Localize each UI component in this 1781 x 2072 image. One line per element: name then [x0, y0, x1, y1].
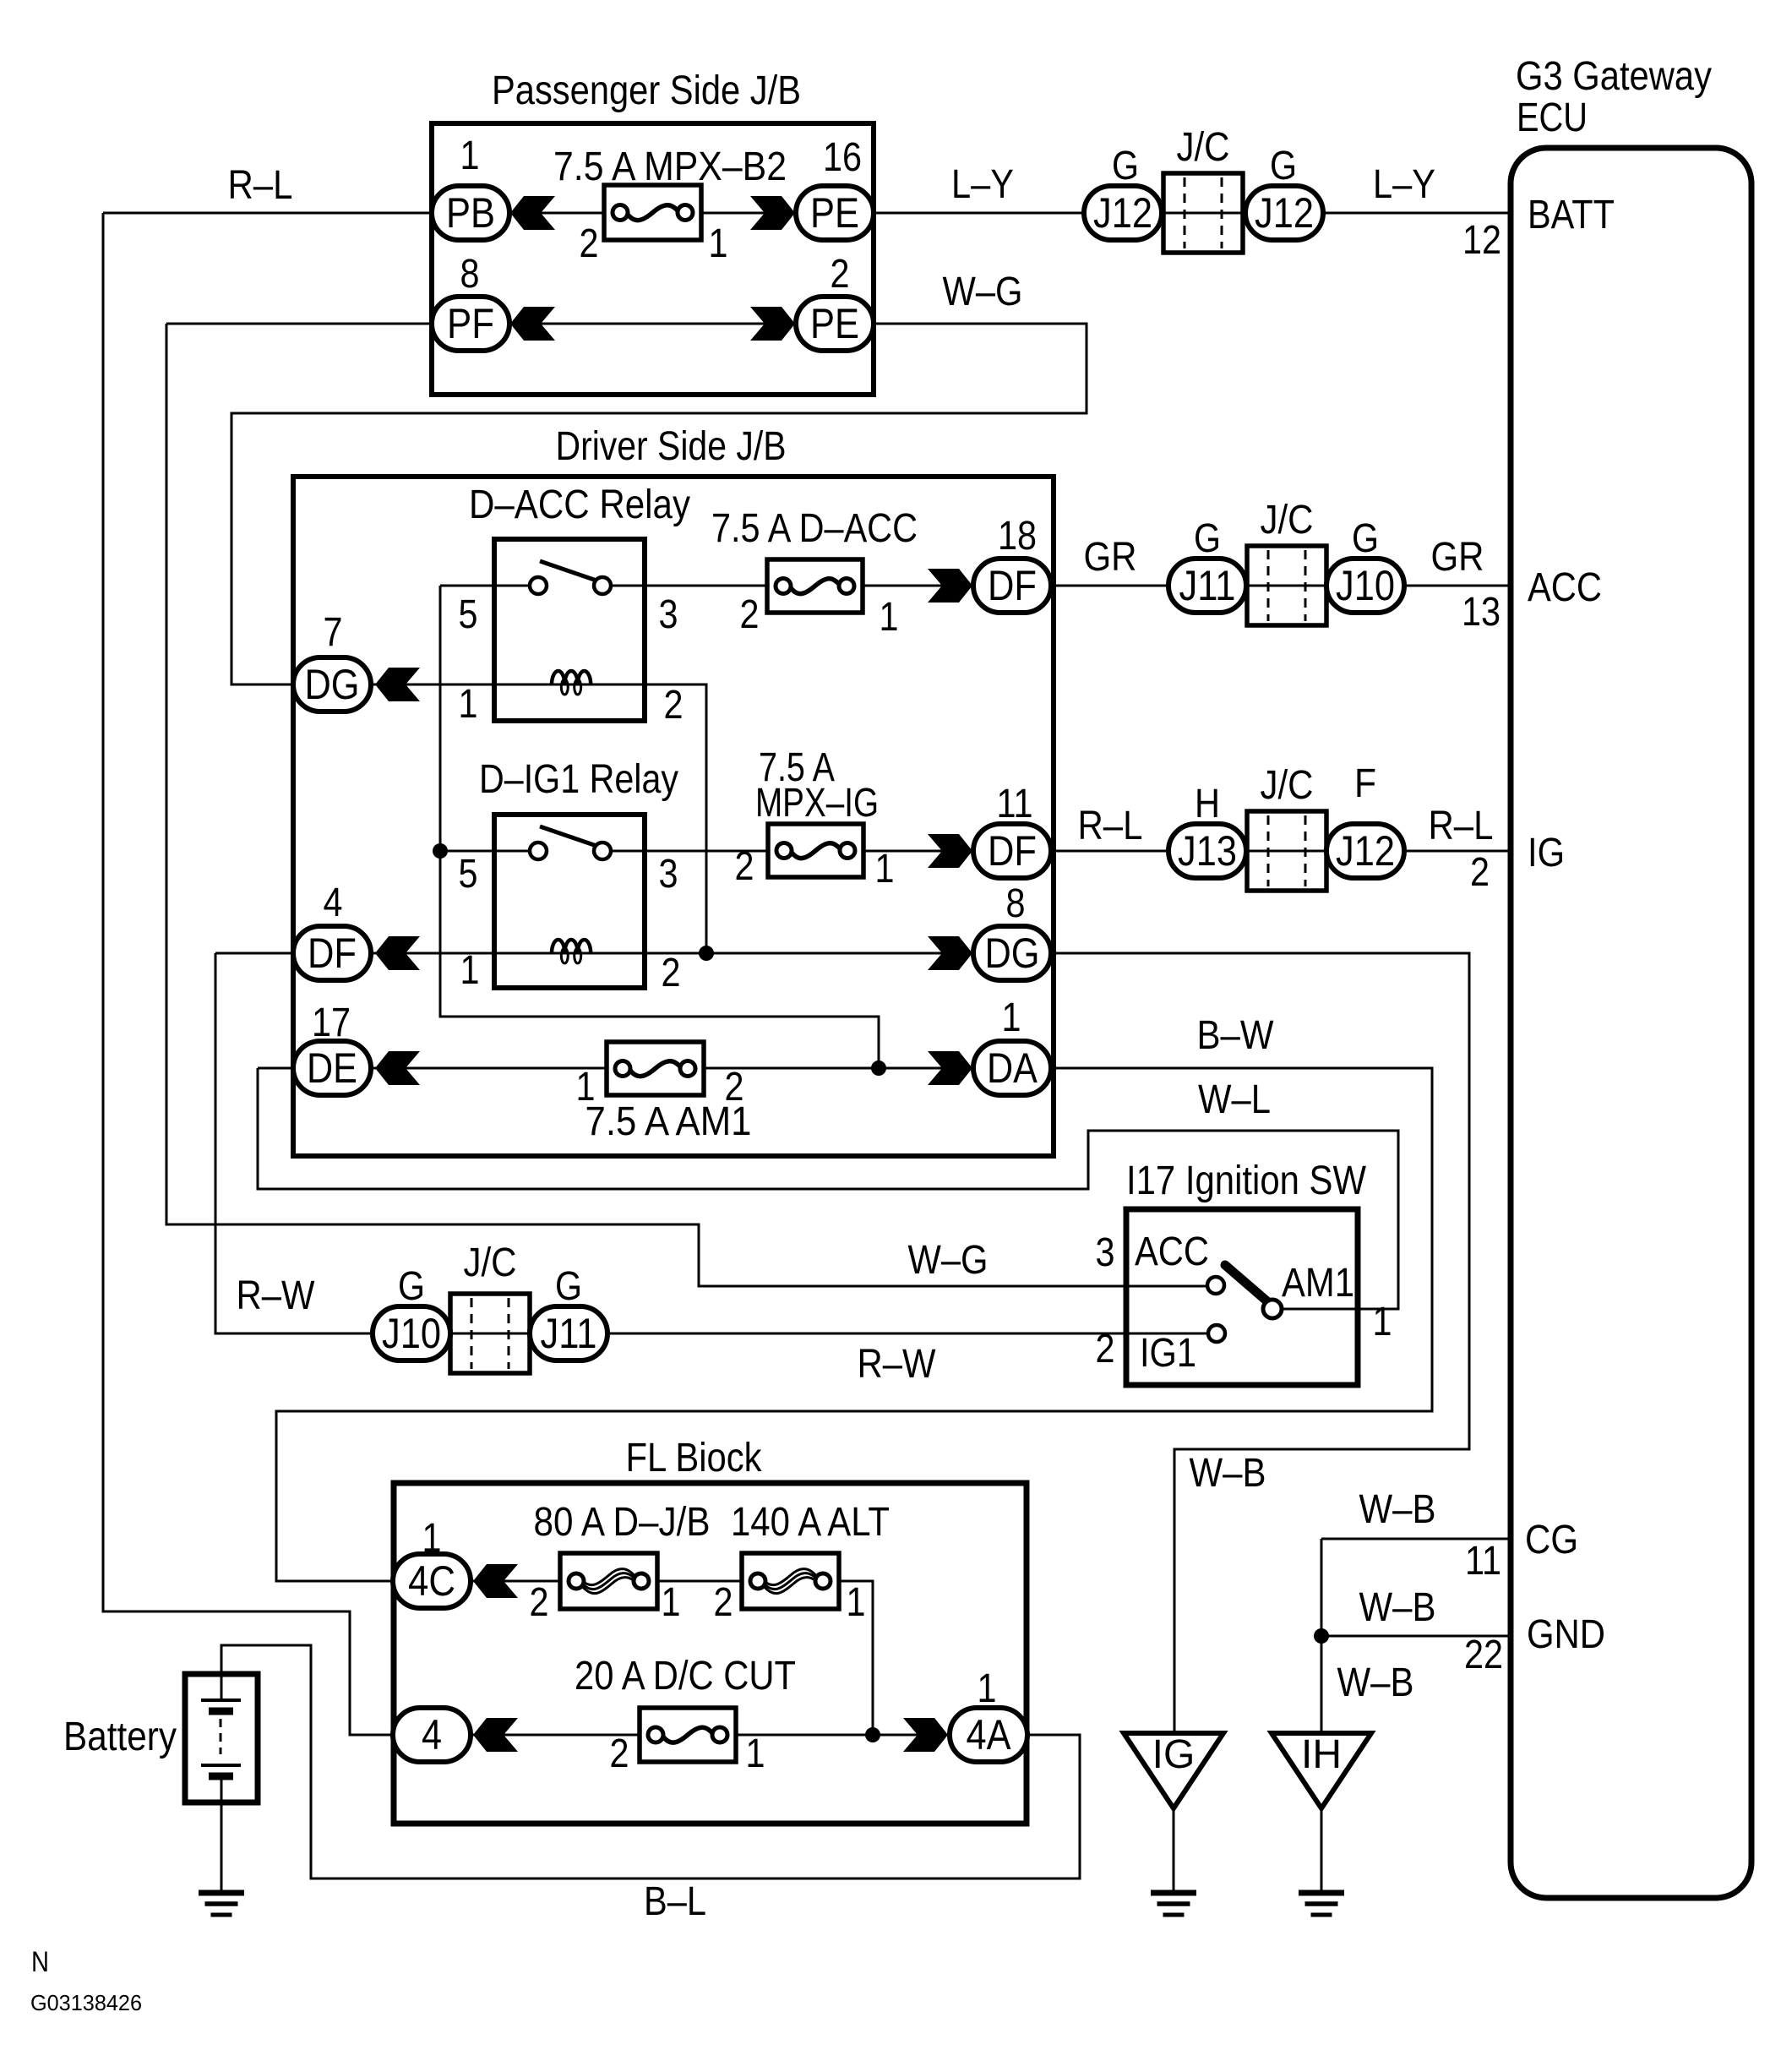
svg-text:R–L: R–L	[1429, 804, 1494, 848]
svg-text:J12: J12	[1336, 827, 1395, 875]
svg-text:ECU: ECU	[1517, 95, 1588, 140]
svg-text:J/C: J/C	[464, 1240, 517, 1285]
svg-text:1: 1	[1373, 1300, 1392, 1344]
svg-text:1: 1	[576, 1065, 596, 1110]
svg-text:1: 1	[459, 682, 478, 727]
svg-text:PF: PF	[447, 300, 494, 347]
svg-text:J10: J10	[1336, 562, 1395, 609]
svg-text:G: G	[1194, 516, 1221, 561]
svg-text:DF: DF	[988, 827, 1037, 875]
svg-text:PE: PE	[810, 300, 859, 347]
svg-text:11: 11	[1465, 1539, 1501, 1584]
svg-text:DA: DA	[987, 1044, 1038, 1092]
svg-text:5: 5	[459, 852, 478, 897]
svg-text:W–L: W–L	[1198, 1077, 1271, 1122]
svg-text:W–B: W–B	[1359, 1487, 1436, 1532]
svg-text:2: 2	[831, 252, 850, 297]
svg-text:2: 2	[1470, 850, 1490, 895]
svg-text:DF: DF	[988, 562, 1037, 609]
svg-text:1: 1	[1002, 995, 1021, 1040]
svg-text:8: 8	[460, 252, 480, 297]
svg-text:J11: J11	[541, 1310, 597, 1357]
svg-text:W–G: W–G	[908, 1238, 989, 1283]
svg-text:DG: DG	[985, 930, 1040, 977]
svg-text:G03138426: G03138426	[30, 1990, 142, 2015]
svg-text:BATT: BATT	[1528, 193, 1615, 237]
svg-text:80 A D–J/B: 80 A D–J/B	[534, 1500, 711, 1545]
svg-text:G: G	[1352, 516, 1379, 561]
svg-text:7.5 A D–ACC: 7.5 A D–ACC	[711, 506, 918, 551]
svg-text:CG: CG	[1525, 1518, 1578, 1562]
svg-text:J12: J12	[1255, 189, 1314, 237]
svg-text:DF: DF	[308, 930, 357, 977]
svg-text:1: 1	[847, 1580, 866, 1625]
svg-text:G3 Gateway: G3 Gateway	[1516, 54, 1712, 99]
svg-text:G: G	[555, 1264, 582, 1309]
svg-text:J/C: J/C	[1261, 498, 1314, 543]
svg-text:R–W: R–W	[237, 1273, 316, 1318]
svg-text:PB: PB	[446, 189, 495, 237]
svg-text:1: 1	[422, 1516, 442, 1561]
svg-text:20 A D/C CUT: 20 A D/C CUT	[575, 1654, 796, 1698]
svg-text:2: 2	[725, 1065, 744, 1110]
svg-text:2: 2	[610, 1731, 629, 1776]
svg-text:R–W: R–W	[858, 1342, 937, 1387]
svg-text:1: 1	[880, 595, 899, 640]
svg-text:W–G: W–G	[943, 270, 1023, 314]
svg-text:1: 1	[978, 1666, 997, 1711]
svg-text:L–Y: L–Y	[951, 162, 1014, 207]
svg-text:J10: J10	[382, 1310, 441, 1357]
svg-text:Passenger Side J/B: Passenger Side J/B	[492, 68, 801, 113]
svg-text:5: 5	[459, 592, 478, 637]
svg-text:G: G	[1270, 144, 1297, 188]
svg-text:FL Biock: FL Biock	[626, 1436, 763, 1480]
svg-text:GR: GR	[1431, 535, 1484, 580]
svg-text:GND: GND	[1527, 1612, 1605, 1657]
svg-text:2: 2	[530, 1580, 549, 1625]
svg-text:1: 1	[662, 1580, 681, 1625]
svg-text:D–IG1 Relay: D–IG1 Relay	[479, 757, 678, 802]
svg-text:IG: IG	[1152, 1732, 1196, 1777]
svg-text:IH: IH	[1301, 1732, 1342, 1777]
svg-text:Battery: Battery	[63, 1715, 177, 1759]
svg-text:7.5 A MPX–B2: 7.5 A MPX–B2	[553, 144, 787, 189]
svg-text:1: 1	[460, 948, 480, 993]
svg-text:2: 2	[662, 951, 681, 995]
svg-text:17: 17	[312, 1001, 351, 1045]
svg-text:2: 2	[740, 592, 760, 637]
svg-text:J13: J13	[1178, 827, 1237, 875]
svg-text:PE: PE	[810, 189, 859, 237]
svg-text:J11: J11	[1179, 562, 1236, 609]
svg-text:2: 2	[735, 844, 754, 889]
svg-text:I17 Ignition SW: I17 Ignition SW	[1126, 1159, 1367, 1203]
svg-text:R–L: R–L	[1078, 804, 1143, 848]
svg-text:G: G	[1112, 144, 1139, 188]
svg-text:4A: 4A	[967, 1711, 1012, 1758]
svg-text:R–L: R–L	[228, 163, 293, 208]
svg-text:12: 12	[1462, 218, 1501, 263]
svg-text:2: 2	[714, 1580, 733, 1625]
svg-text:W–B: W–B	[1337, 1660, 1414, 1705]
svg-text:13: 13	[1462, 590, 1501, 635]
svg-text:IG1: IG1	[1140, 1331, 1196, 1376]
svg-text:H: H	[1195, 782, 1220, 826]
svg-text:3: 3	[659, 852, 678, 897]
svg-text:2: 2	[580, 221, 599, 266]
svg-text:B–W: B–W	[1197, 1013, 1275, 1058]
svg-text:11: 11	[997, 782, 1033, 826]
svg-text:Driver Side J/B: Driver Side J/B	[556, 424, 787, 469]
svg-text:MPX–IG: MPX–IG	[755, 781, 879, 826]
svg-text:J12: J12	[1093, 189, 1152, 237]
svg-text:18: 18	[998, 514, 1037, 559]
svg-text:DG: DG	[305, 661, 360, 708]
svg-text:ACC: ACC	[1135, 1230, 1209, 1274]
svg-text:N: N	[31, 1946, 49, 1978]
svg-text:16: 16	[823, 135, 862, 180]
svg-text:4: 4	[324, 881, 343, 925]
svg-text:2: 2	[664, 683, 684, 728]
svg-text:140 A ALT: 140 A ALT	[731, 1500, 890, 1545]
svg-text:W–B: W–B	[1359, 1585, 1436, 1630]
svg-text:GR: GR	[1084, 535, 1137, 580]
svg-text:1: 1	[460, 134, 480, 178]
svg-text:DE: DE	[307, 1044, 357, 1092]
svg-text:W–B: W–B	[1190, 1451, 1266, 1496]
svg-text:7: 7	[324, 610, 343, 655]
svg-text:22: 22	[1464, 1633, 1503, 1677]
svg-text:J/C: J/C	[1177, 125, 1230, 170]
svg-text:3: 3	[659, 592, 678, 637]
svg-text:4: 4	[422, 1711, 442, 1758]
svg-text:1: 1	[875, 847, 895, 892]
svg-text:ACC: ACC	[1528, 565, 1602, 610]
svg-text:J/C: J/C	[1261, 763, 1314, 808]
svg-text:F: F	[1354, 761, 1376, 806]
svg-text:L–Y: L–Y	[1373, 162, 1435, 207]
svg-text:D–ACC Relay: D–ACC Relay	[469, 483, 690, 527]
svg-text:2: 2	[1096, 1327, 1115, 1371]
svg-text:3: 3	[1096, 1230, 1115, 1275]
svg-text:1: 1	[709, 221, 728, 266]
svg-text:IG: IG	[1528, 831, 1565, 875]
svg-text:4C: 4C	[408, 1557, 455, 1605]
svg-text:B–L: B–L	[644, 1879, 706, 1924]
svg-text:G: G	[398, 1264, 425, 1309]
svg-text:1: 1	[746, 1731, 765, 1776]
svg-text:AM1: AM1	[1282, 1261, 1354, 1306]
svg-text:8: 8	[1006, 881, 1026, 926]
